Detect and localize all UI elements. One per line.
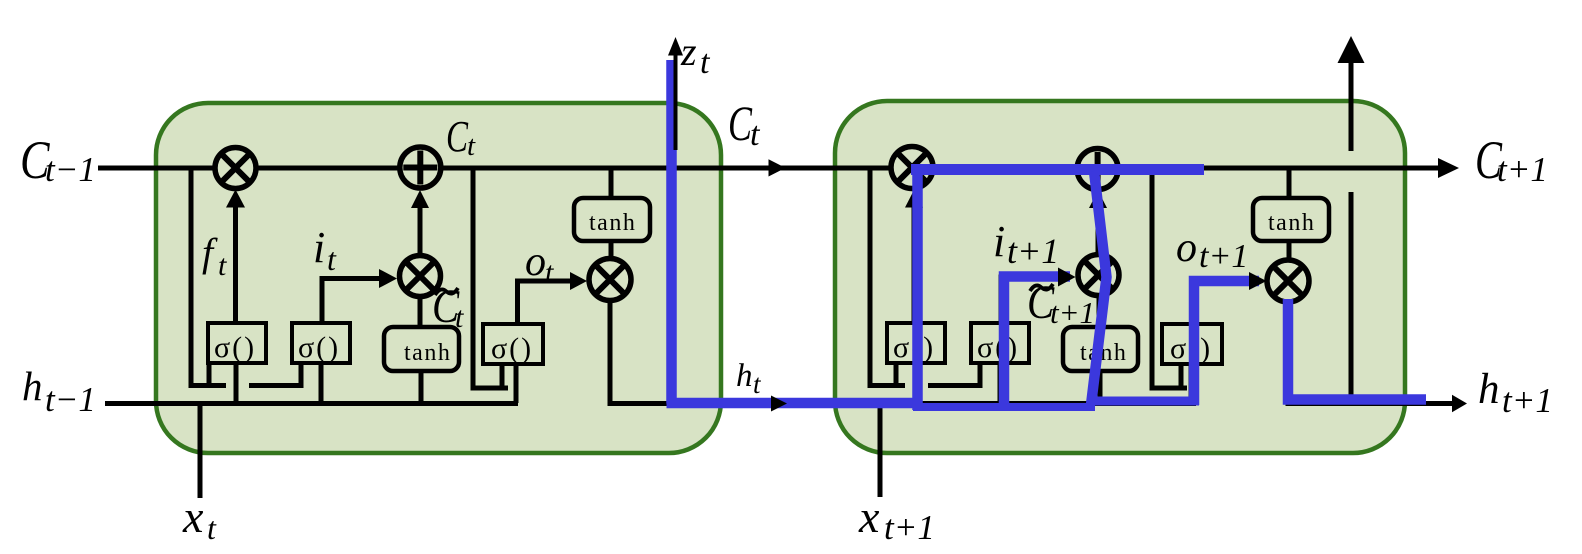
sigma gate 1': [887, 323, 945, 364]
z arrow overlay: [674, 52, 678, 150]
internal exit vertical: [1349, 192, 1354, 397]
peephole C to sigma3: [473, 168, 508, 388]
sigma2 hook: [249, 363, 301, 386]
C line: [98, 166, 1443, 171]
blue h segment 2: [913, 403, 1095, 411]
sigma3 to h line: [514, 364, 519, 403]
f gate arrow to X1: [233, 206, 238, 323]
blue z line: [667, 60, 918, 404]
svg-text:tanh: tanh: [404, 340, 451, 366]
svg-text:tanh: tanh: [1268, 210, 1315, 236]
svg-text:o: o: [525, 239, 546, 285]
svg-text:t+1: t+1: [1007, 231, 1059, 271]
label C_t-1: [20, 130, 50, 190]
sigma4' to h line: [1189, 364, 1194, 403]
blue i branch: [1004, 277, 1070, 411]
o' arrowhead overlay: [1249, 272, 1267, 290]
sigma2 to h line: [319, 363, 324, 403]
tanh box 2: [574, 198, 650, 241]
blue slant through adder: [1091, 171, 1107, 405]
h mid arrow overlay: [771, 396, 787, 412]
blue o branch: [1194, 281, 1259, 405]
peephole C to sigma4': [1152, 168, 1187, 388]
sigma gate 3: [483, 324, 543, 365]
i' arrowhead overlay: [1058, 268, 1076, 287]
svg-text:h: h: [1478, 366, 1500, 413]
svg-text:t+1: t+1: [1497, 150, 1548, 189]
label C_t above adder: [446, 113, 469, 162]
f' gate arrow to X1': [912, 206, 917, 323]
C tilde t label: [432, 279, 460, 333]
svg-text:σ(): σ(): [977, 331, 1019, 364]
o' line to X3': [1192, 281, 1248, 324]
svg-text:t: t: [750, 116, 761, 153]
right cell: multiplier X1': [891, 147, 933, 189]
sigma1' to h line: [913, 363, 918, 403]
blue rise to C: [912, 172, 923, 410]
svg-text:σ(): σ(): [491, 332, 533, 365]
multiplier X1 (forget): [215, 148, 256, 189]
svg-text:t+1: t+1: [884, 508, 935, 547]
adder P1: [400, 147, 441, 188]
h input line: [105, 401, 518, 406]
svg-text:x: x: [858, 491, 880, 542]
svg-text:σ(): σ(): [298, 331, 340, 364]
svg-text:i: i: [313, 223, 325, 272]
sigma gate 1: [208, 323, 266, 364]
sigma gate 2: [292, 323, 350, 364]
C to tanh2' connector: [1287, 168, 1292, 198]
C to tanh2 connector: [609, 168, 614, 198]
multiplier X3': [1267, 260, 1309, 302]
svg-text:t: t: [700, 44, 711, 81]
svg-text:t+1: t+1: [1502, 381, 1553, 420]
blue along C line: [911, 164, 1204, 175]
svg-text:z: z: [680, 29, 697, 74]
svg-text:t: t: [218, 249, 227, 282]
svg-text:t+1: t+1: [1199, 238, 1248, 275]
C line mid arrow: [769, 159, 786, 176]
h mid line under blue: [669, 401, 1196, 406]
i line to X2: [322, 279, 379, 324]
sigma gate 4': [1162, 324, 1222, 365]
sigma gate 2': [971, 323, 1029, 364]
sigma2' hook: [928, 363, 980, 386]
X3' down to h out: [1288, 302, 1456, 404]
tanh1' to h line: [1098, 371, 1103, 403]
svg-text:t−1: t−1: [45, 150, 96, 189]
o line to X3: [518, 281, 571, 324]
tanh1 to h line: [419, 371, 424, 403]
svg-text:t: t: [545, 256, 554, 289]
peephole C to sigma1: [191, 168, 226, 386]
label C_t+1: [1475, 130, 1503, 190]
svg-text:h: h: [22, 363, 43, 409]
svg-text:t−1: t−1: [45, 380, 96, 419]
x_t input line: [198, 406, 203, 498]
svg-text:o: o: [1176, 225, 1197, 271]
x_t+1 input line: [878, 406, 883, 497]
svg-text:t: t: [327, 241, 337, 277]
sigma2' to h line: [998, 363, 1003, 403]
C tilde t+1 label: [1027, 275, 1055, 329]
adder P1': [1077, 149, 1118, 190]
cell t body: [156, 103, 721, 453]
svg-text:t: t: [467, 130, 476, 162]
X2 to adder arrow: [418, 206, 423, 255]
X2' to tanh1' connector: [1097, 296, 1102, 327]
tanh2 to X3 connector: [609, 241, 614, 259]
blue h out: [1288, 299, 1426, 400]
tanh box 1': [1063, 327, 1138, 371]
top exit arrow right cell: [1349, 60, 1354, 151]
peephole C to sigma1': [870, 168, 905, 386]
svg-text:C: C: [446, 113, 469, 162]
tanh box 2': [1253, 198, 1329, 241]
svg-text:i: i: [993, 217, 1005, 266]
X2 to tanh connector: [418, 297, 423, 327]
svg-text:x: x: [182, 491, 204, 542]
svg-text:h: h: [736, 358, 753, 394]
multiplier X3 (output): [589, 259, 631, 301]
X3 down to h out corner: [610, 301, 672, 404]
svg-text:t: t: [207, 510, 217, 546]
label C_t: [728, 96, 753, 151]
tanh2' to X3' connector: [1287, 241, 1292, 260]
tanh box 1: [384, 327, 459, 371]
svg-text:tanh: tanh: [589, 210, 636, 236]
X2' to adder arrow: [1096, 206, 1101, 254]
h end arrow: [1452, 395, 1467, 412]
cell t+1 body: [835, 101, 1405, 453]
sigma1 to h line: [234, 363, 239, 403]
i' line to X2': [1001, 277, 1058, 323]
C line end arrow: [1438, 158, 1459, 178]
multiplier X2': [1078, 255, 1119, 296]
multiplier X2 (input): [400, 256, 441, 297]
svg-text:σ(): σ(): [214, 331, 256, 364]
svg-text:t: t: [753, 369, 762, 399]
